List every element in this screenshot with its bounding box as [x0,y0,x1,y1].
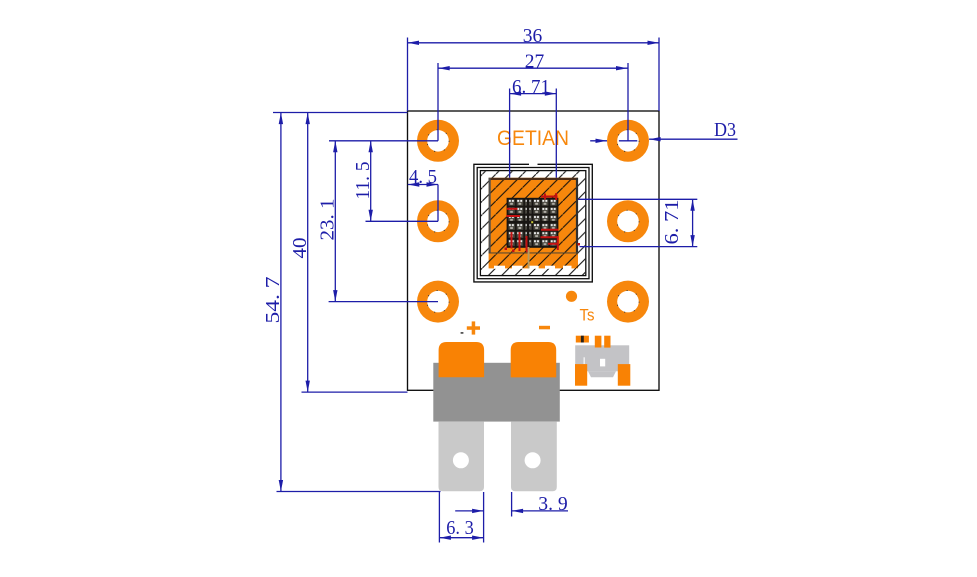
dim 36 line [408,42,660,44]
arrows 4.5 [408,182,420,186]
dim 6.71 right line [692,199,694,246]
arrows 3.9 [472,509,484,513]
small dot near plus [461,332,464,334]
LED package middle square [477,168,589,279]
hole H3 horizontal centerline [329,301,438,303]
svg-text:36: 36 [523,25,543,47]
LED dam border (bottom) [489,252,578,253]
minus polarity mark [539,326,550,330]
dim 3.9 extension right [511,492,513,517]
dim 6.3 line [439,537,483,539]
mounting hole H4 (top-right) [607,120,649,162]
hole H1 horizontal centerline [329,140,438,142]
arrows 11.5 [369,141,373,153]
arrow D3 leader [649,137,661,141]
dim 11.5 line [370,141,372,222]
Ts label [580,306,595,325]
svg-text:11. 5: 11. 5 [352,162,374,200]
connector bottom-right pad [618,364,631,386]
dim 40 bottom extension [302,391,408,393]
LED package inner square [480,171,585,276]
LED dam border (top) [489,178,578,180]
LED phosphor square (orange emitting surface) [489,178,578,269]
left faston tab [439,422,485,492]
dim 27 extension left / hole H1 centerline [437,63,439,141]
module board outline [408,111,660,390]
svg-text:GETIAN: GETIAN [497,126,569,150]
GETIAN logo text [497,126,569,150]
mounting hole H3 (bottom-left) [417,281,459,323]
dim 23.1 line [334,141,336,302]
dim 27 extension right / hole H4 centerline [627,63,629,141]
svg-text:D3: D3 [714,119,736,141]
NTC chip (orange pads + dark body) [576,336,589,343]
negative terminal (orange) [511,342,557,377]
dim 3.9 line right part [512,510,568,512]
connector bottom-left pad [575,364,587,386]
LED dam border (right) [576,178,578,253]
arrow D3 left [596,139,608,143]
svg-text:3. 9: 3. 9 [538,493,568,515]
svg-text:40: 40 [289,238,311,259]
right faston tab [511,422,557,492]
dim 6.71 top line [510,93,557,95]
dim 6.3 extension left [438,492,440,543]
svg-text:27: 27 [525,50,545,72]
dim 6.71 right extension top [578,198,697,200]
arrows 54.7 [279,113,283,125]
hatch fill over inner square [481,171,585,275]
arrows 6.71 top [510,91,521,95]
dim 6.71 right extension bottom [580,246,698,248]
svg-text:4. 5: 4. 5 [409,166,437,188]
arrows 6.3 [439,536,451,540]
LED dam border (left) [489,178,491,253]
dim 36 extension left [407,38,409,112]
arrows 36 [408,41,420,45]
dim 4.5 line [408,184,438,186]
D3 leader line [649,138,737,140]
connector top pad 2 [604,336,610,348]
connector block (dark gray) [433,363,560,422]
LED chip array (6x6) [507,199,557,247]
mounting hole H1 (top-left) [417,120,459,162]
svg-text:6. 3: 6. 3 [446,517,474,539]
hole H2 horizontal centerline [366,220,439,222]
bond-wire red marks [505,193,581,252]
mounting hole H6 (bottom-right) [607,281,649,323]
svg-text:54. 7: 54. 7 [262,277,284,324]
D3 left tick line [590,140,607,142]
mounting hole H2 (mid-left) [417,200,459,242]
dim 6.71 top extension left [509,89,511,178]
hole H4 horizontal centerline [619,140,637,142]
svg-text:23. 1: 23. 1 [317,199,339,241]
dim 3.9 extension left [483,492,485,543]
svg-text:Ts: Ts [580,306,595,325]
dim 6.71 top extension right [555,89,557,178]
dimension arrowheads [279,41,695,540]
svg-text:6. 71: 6. 71 [512,76,550,98]
arrows 23.1 [333,141,337,153]
phosphor pour mark (tan line) [528,247,530,268]
connector top pad 1 [595,336,602,348]
arrows 6.71 right [690,199,694,211]
Ts thermal sensor dot [566,291,577,302]
positive terminal (orange) [439,342,485,377]
dim 54.7 line [280,113,282,492]
dimension texts [262,25,736,539]
mounting hole H5 (mid-right) [607,200,649,242]
dim 3.9 line left part [455,510,483,512]
arrows 27 [438,66,450,70]
dim 40 line [307,113,309,393]
dim 54.7 bottom extension [277,491,441,493]
NTC connector body (light gray) [575,345,629,377]
top extension line (40 / 54.7) [273,112,408,114]
solder mask bites at orange bottom edge [494,266,572,269]
dim 27 line [438,67,627,69]
arrows 40 [306,113,310,125]
LED package outer square (with gap at top) [474,164,592,282]
dim 36 extension right [658,38,660,112]
svg-text:6. 71: 6. 71 [661,200,683,245]
plus polarity mark [467,321,480,334]
